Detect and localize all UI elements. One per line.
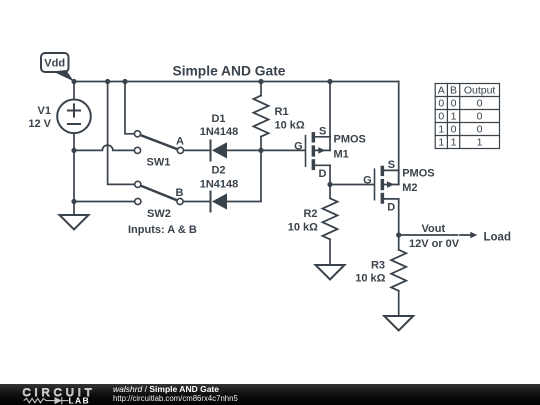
- svg-text:Output: Output: [464, 85, 496, 97]
- footer title: [113, 384, 219, 394]
- svg-text:D2: D2: [211, 165, 225, 177]
- svg-text:12 V: 12 V: [28, 118, 51, 130]
- wire node down to R2: [329, 185, 331, 199]
- node dot SW2 row: [71, 199, 76, 204]
- wire node to M2 gate: [330, 184, 374, 186]
- svg-text:R1: R1: [275, 106, 289, 118]
- svg-text:B: B: [450, 85, 457, 97]
- svg-text:0: 0: [451, 98, 457, 110]
- node dot rail R1: [258, 79, 263, 84]
- svg-text:D1: D1: [211, 113, 225, 125]
- svg-text:G: G: [363, 174, 372, 186]
- svg-text:M2: M2: [402, 182, 417, 194]
- ground (R2): [316, 265, 345, 280]
- svg-text:0: 0: [438, 111, 444, 123]
- resistor R2: [323, 198, 338, 239]
- arrow to Load: [460, 232, 477, 239]
- svg-text:LAB: LAB: [69, 395, 91, 405]
- svg-text:1N4148: 1N4148: [200, 126, 239, 138]
- svg-text:1: 1: [438, 124, 444, 136]
- svg-text:10 kΩ: 10 kΩ: [275, 120, 305, 132]
- node dot rail x107: [105, 79, 110, 84]
- footer url: [113, 394, 238, 403]
- wire V1 node to ground branch: [73, 150, 75, 215]
- wire SW1 to D1: [183, 149, 210, 151]
- svg-text:V1: V1: [38, 105, 51, 117]
- svg-text:SW2: SW2: [147, 208, 171, 220]
- node dot diode AND node: [258, 148, 263, 153]
- wire R2 bottom to ground: [329, 239, 331, 265]
- junction dots: [71, 79, 401, 238]
- ground (V1): [60, 215, 89, 230]
- wire R1 bottom to node: [260, 137, 262, 151]
- svg-text:12V or 0V: 12V or 0V: [409, 238, 460, 250]
- svg-text:A: A: [176, 136, 184, 148]
- wire node to SW2 bottom terminal: [74, 201, 135, 203]
- svg-text:0: 0: [477, 124, 483, 136]
- node dot rail M1 source: [327, 79, 332, 84]
- svg-text:SW1: SW1: [147, 157, 171, 169]
- svg-text:10 kΩ: 10 kΩ: [288, 222, 318, 234]
- wire M1 source to rail: [329, 82, 331, 137]
- wire D1 to node A: [227, 149, 261, 151]
- svg-text:A: A: [438, 85, 445, 97]
- wire Vout node down to R3: [398, 235, 400, 250]
- wire node to SW1 with hop over vertical: [74, 145, 135, 150]
- wire node to M1 gate: [261, 149, 305, 151]
- footer bar: [0, 384, 540, 405]
- wire rail drop to M2 source: [398, 82, 400, 185]
- svg-text:Vdd: Vdd: [44, 58, 65, 70]
- svg-text:1N4148: 1N4148: [200, 178, 239, 190]
- transistor M1 PMOS: [306, 132, 331, 170]
- svg-text:1: 1: [477, 137, 483, 149]
- svg-text:B: B: [176, 187, 184, 199]
- svg-text:0: 0: [438, 98, 444, 110]
- svg-text:M1: M1: [334, 149, 349, 161]
- svg-text:PMOS: PMOS: [334, 134, 366, 146]
- diode D1: [211, 140, 228, 160]
- Vdd net flag: [41, 53, 74, 82]
- wire top rail Vdd: [74, 81, 399, 83]
- truth table text: [438, 85, 496, 149]
- wire rail to SW2 top terminal: [108, 82, 135, 185]
- svg-text:R3: R3: [371, 259, 385, 271]
- svg-text:S: S: [388, 159, 395, 171]
- svg-text:0: 0: [477, 98, 483, 110]
- wire rail to SW1 top terminal: [125, 82, 135, 134]
- wire D2 up to node A: [227, 150, 261, 201]
- wire M2 drain down to Vout node: [398, 199, 400, 235]
- voltage source V1: [57, 100, 91, 134]
- transistor M2 PMOS: [375, 166, 399, 204]
- diode D2: [211, 192, 228, 212]
- resistor R1: [254, 96, 269, 137]
- svg-text:1: 1: [451, 137, 457, 149]
- svg-text:Load: Load: [484, 231, 511, 243]
- ground (R3): [384, 316, 413, 331]
- node dot M1 drain: [327, 182, 332, 187]
- wire SW2 to D2: [183, 201, 211, 203]
- svg-text:Inputs: A & B: Inputs: A & B: [128, 224, 197, 236]
- wire V1 top: [73, 82, 75, 100]
- wire Vout node right: [399, 234, 458, 236]
- truth table: [435, 84, 499, 149]
- svg-text:D: D: [319, 168, 327, 180]
- resistor R3: [391, 250, 406, 291]
- wire V1 bottom: [73, 133, 75, 150]
- wire M1 drain down to node: [329, 165, 331, 184]
- svg-text:Simple AND Gate: Simple AND Gate: [173, 63, 286, 78]
- svg-text:G: G: [294, 140, 303, 152]
- svg-text:1: 1: [438, 137, 444, 149]
- CircuitLab logo squiggle (resistor + diode): [24, 397, 69, 404]
- svg-text:0: 0: [477, 111, 483, 123]
- svg-text:1: 1: [451, 111, 457, 123]
- svg-text:0: 0: [451, 124, 457, 136]
- node dot Vdd/V1: [71, 79, 76, 84]
- node dot Vout: [396, 232, 401, 237]
- svg-text:Vout: Vout: [422, 223, 446, 235]
- svg-text:S: S: [319, 126, 326, 138]
- switch SW2: [135, 181, 183, 204]
- wire R3 bottom to ground: [398, 291, 400, 316]
- node dot rail x125: [122, 79, 127, 84]
- wire R1 top: [260, 82, 262, 96]
- svg-text:PMOS: PMOS: [402, 167, 434, 179]
- node dot V1 bottom: [71, 148, 76, 153]
- svg-text:10 kΩ: 10 kΩ: [355, 272, 385, 284]
- switch SW1: [134, 131, 183, 154]
- svg-text:R2: R2: [303, 208, 317, 220]
- svg-text:D: D: [387, 202, 395, 214]
